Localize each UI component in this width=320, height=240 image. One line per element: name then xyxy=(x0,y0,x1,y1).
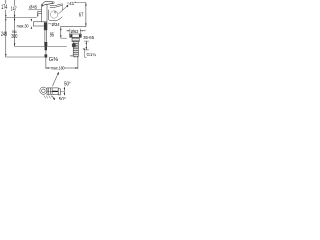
plan view lever blade xyxy=(50,4,63,8)
spout level extension line xyxy=(6,17,37,19)
leader G1 1/4 xyxy=(83,48,87,57)
hose fitting block xyxy=(44,42,47,46)
hatches under coupling xyxy=(44,95,53,98)
deck cross-section xyxy=(33,22,47,26)
faucet lever side view xyxy=(42,2,53,7)
svg-text:300: 300 xyxy=(11,34,17,40)
swivel vertical double arrow xyxy=(64,87,65,96)
swivel axis line xyxy=(60,91,64,93)
dim line 174 vertical xyxy=(5,0,6,57)
shank-end extension line xyxy=(5,56,44,58)
swivel down arrow xyxy=(52,96,55,101)
svg-text:41°: 41° xyxy=(69,1,76,6)
flow arrow under spout xyxy=(37,14,38,17)
hose end fitting xyxy=(45,54,48,57)
deck reference line right xyxy=(60,26,86,28)
svg-text:50°: 50° xyxy=(59,97,66,100)
svg-text:Ø63: Ø63 xyxy=(71,29,79,34)
svg-text:Ø34: Ø34 xyxy=(52,22,60,27)
swivel up arrow xyxy=(52,72,59,86)
svg-text:67: 67 xyxy=(79,12,84,18)
leader for dia 34 xyxy=(48,23,51,25)
faucet body side view xyxy=(42,3,47,22)
svg-text:35-65: 35-65 xyxy=(83,35,94,40)
plan view right edge xyxy=(61,6,63,10)
mounting hardware below deck xyxy=(44,22,47,30)
leader for dia 45 xyxy=(28,9,41,11)
svg-text:G1¼: G1¼ xyxy=(87,52,97,57)
plan view body circle xyxy=(50,11,57,18)
pop-up waste flange xyxy=(70,34,82,37)
pop-up rod boss xyxy=(72,43,76,47)
svg-text:max.30: max.30 xyxy=(17,24,29,29)
deck thickness arrows xyxy=(31,19,32,29)
clamp range dim xyxy=(84,41,89,50)
supply hose bundle xyxy=(45,30,47,42)
coupling body xyxy=(47,88,58,94)
dim dia 63 xyxy=(66,29,85,34)
lever knob xyxy=(52,2,54,4)
pop-up waste neck xyxy=(72,37,79,41)
dim max.180 xyxy=(46,56,78,69)
svg-text:max.180: max.180 xyxy=(51,65,65,70)
dim 67 xyxy=(75,3,87,27)
svg-text:249: 249 xyxy=(1,32,7,38)
pop-up waste threaded tail xyxy=(70,42,78,59)
svg-text:50°: 50° xyxy=(64,81,71,87)
dim 95 xyxy=(60,27,67,38)
dim line 147 vertical xyxy=(14,0,15,46)
svg-text:147: 147 xyxy=(11,7,17,13)
41 degree swivel arrow xyxy=(59,3,70,14)
hose-end extension line xyxy=(15,45,67,47)
spout nub xyxy=(37,12,41,14)
svg-text:G⅜: G⅜ xyxy=(49,57,59,63)
svg-text:max.: max. xyxy=(12,29,17,34)
plan view outline xyxy=(48,10,62,21)
coupling ring inner xyxy=(42,89,46,93)
svg-text:95: 95 xyxy=(50,32,54,38)
coupling end nut xyxy=(58,89,60,95)
hose rod xyxy=(45,50,47,54)
svg-text:174: 174 xyxy=(1,4,7,11)
coupling ring outer xyxy=(40,87,47,94)
plan view aerator dot xyxy=(54,11,56,13)
